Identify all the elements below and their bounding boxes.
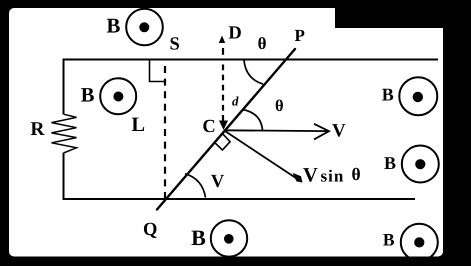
svg-text:R: R [30, 119, 45, 140]
svg-text:V: V [211, 172, 225, 192]
svg-text:C: C [202, 117, 215, 137]
svg-text:B: B [81, 85, 95, 107]
svg-text:B: B [106, 14, 120, 38]
svg-text:d: d [232, 94, 239, 109]
svg-text:θ: θ [258, 34, 267, 53]
svg-text:L: L [131, 114, 145, 136]
svg-text:Q: Q [143, 220, 157, 240]
svg-text:P: P [295, 26, 305, 45]
svg-text:B: B [383, 230, 395, 250]
svg-text:Vsinθ: Vsinθ [303, 164, 361, 187]
svg-text:D: D [228, 24, 241, 44]
svg-text:θ: θ [275, 96, 284, 115]
svg-text:S: S [169, 35, 179, 55]
svg-text:B: B [191, 225, 206, 250]
svg-text:B: B [382, 84, 394, 104]
svg-text:B: B [384, 153, 396, 173]
svg-text:V: V [332, 120, 346, 141]
